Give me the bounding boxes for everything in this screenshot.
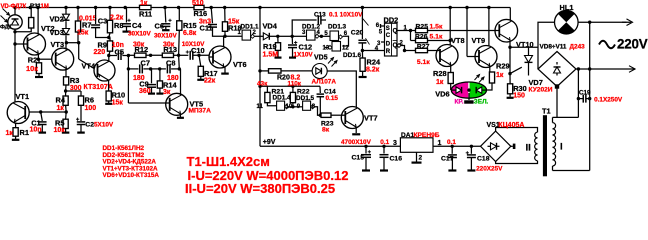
capacitor C20 [358,8,369,53]
svg-text:VT1: VT1 [16,92,30,101]
label C7 value [133,75,145,82]
resistor R19 [275,36,282,57]
svg-text:VT8: VT8 [451,36,465,45]
label R30 [513,84,527,93]
gate DD1.2 [307,30,320,40]
svg-text:100: 100 [85,105,97,112]
wire R13-C10 [174,54,189,57]
svg-text:+9V: +9V [263,139,276,146]
wire R20 tap [258,69,261,72]
svg-text:R10: R10 [112,91,126,100]
label DD1.6 pin13 [323,45,330,51]
transistor VT3 [52,43,74,70]
label VD6 [435,89,449,98]
label R17 value [204,78,216,85]
svg-text:R12: R12 [135,45,149,54]
wire to bridge left [510,46,538,48]
resistor R22 [290,86,295,102]
svg-text:МП37А: МП37А [189,107,212,114]
svg-text:C15: C15 [352,155,365,162]
svg-text:15к: 15к [112,99,124,106]
svg-text:C18: C18 [477,156,490,163]
label C15 value [341,139,372,146]
label R15 value [183,30,197,37]
label R6 value [85,105,97,112]
label R8 value [110,14,124,21]
label C9 [139,79,148,88]
svg-text:C: C [386,33,391,39]
label R22 value 110k [288,81,302,88]
label VD8 [540,44,567,51]
label DD1.4 [273,95,292,102]
label C20 [351,29,364,36]
transistor VT4 [94,60,115,81]
label C12 value [294,51,314,58]
label R12 [135,45,149,54]
label DD1.2 [302,24,321,31]
svg-text:C17: C17 [441,156,454,163]
transistor VT8 [436,45,458,67]
label R5 value [54,127,66,134]
VS1 right terminal [511,144,516,149]
label VD1 type [1,4,27,10]
label R8 [114,21,123,30]
svg-text:C9: C9 [139,79,148,88]
svg-text:C11: C11 [200,24,213,33]
label R10 value [112,99,124,106]
label R20 [277,74,290,81]
wire VD4 to DD1.2 [278,35,307,38]
label C1 value [30,127,42,134]
label VT9 [472,36,486,45]
label DD1.3 pin6 [344,31,348,37]
resistor R15 [177,8,182,56]
label R11 value [140,0,148,7]
svg-text:C4: C4 [132,21,142,30]
capacitor C11 [208,8,225,37]
label DD1.2 pin3 [302,30,306,36]
svg-text:D: D [386,42,391,48]
label R2 value [26,64,38,73]
svg-text:Q: Q [393,43,398,49]
svg-text:30Х10V: 30Х10V [154,32,177,39]
svg-text:6: 6 [376,23,380,29]
wire DC right vertical [588,22,591,170]
wire +9V vertical [259,8,261,147]
bridge rectifier VS1 [481,131,511,161]
svg-text:R26: R26 [415,34,428,41]
resistor R5 [62,112,70,133]
label VT8 [451,36,465,45]
wire VT6 collector [223,36,225,47]
resistor R20 [260,69,281,73]
label DA1 pin2 [419,155,423,162]
wire VT2 emitter node [37,54,53,61]
svg-text:22к: 22к [204,78,216,85]
label R14 [163,80,177,89]
resistor R21 [265,86,270,102]
label VT5 [190,99,204,108]
label VD1 [0,25,13,31]
label C6 [155,21,164,30]
wire R25 to VT10 base [428,30,499,32]
resistor R10 [106,91,111,101]
label VD6 green [474,99,489,106]
resistor R9 [107,38,112,58]
svg-text:360: 360 [139,88,151,95]
label R26 [415,34,428,41]
transistor VT7 [341,107,363,129]
svg-text:КЦ405А: КЦ405А [498,122,524,129]
svg-text:VD5: VD5 [314,55,328,62]
svg-text:5.1к: 5.1к [430,34,443,41]
label R13 value [163,42,175,49]
svg-text:R24: R24 [367,57,381,66]
capacitor C4 [122,8,131,32]
label T1 [542,107,551,116]
label R6 [85,95,94,104]
svg-text:0.15: 0.15 [326,95,339,102]
node R3 bottom [64,89,81,96]
capacitor C2 [76,105,85,132]
capacitor C17 [448,146,457,170]
label DD2 pin6 [376,23,380,29]
svg-text:1М: 1М [41,4,49,10]
label R31 [30,4,41,10]
wire VT1 base [30,110,68,113]
capacitor C10 [186,50,210,59]
junction dots on top rail [13,6,490,9]
junction node VD1 bottom [13,30,16,46]
svg-text:4700Х10V: 4700Х10V [341,139,372,146]
capacitor C16 [380,146,389,170]
svg-text:R19: R19 [263,42,277,51]
label R1 value [6,130,14,137]
svg-text:АЛ107А: АЛ107А [312,79,337,86]
label VT3 [51,40,65,49]
svg-text:150: 150 [513,93,525,100]
label VT4 [82,62,96,71]
wire DA1 output [433,145,481,148]
resistor R4 [63,96,68,112]
capacitor C18 [466,146,476,170]
label R21 [272,89,285,96]
label DA1 pin1 [438,140,442,147]
svg-text:5.1к: 5.1к [417,59,430,66]
svg-text:3: 3 [393,140,397,147]
svg-text:Т1-Ш1.4Х2см: Т1-Ш1.4Х2см [187,154,270,169]
label R4 value [57,105,65,112]
gate DD1.6 [328,42,341,52]
label DA1 pin3 [393,140,397,147]
svg-text:DD1.1: DD1.1 [241,24,260,31]
label DD1.1 pin2 [253,30,257,36]
label R18 value [228,18,240,25]
label DD1.3 [328,24,347,31]
label C3 [98,16,107,25]
gate DD1.1 [242,30,255,40]
svg-text:10n: 10n [30,127,42,134]
label R5 [55,118,64,127]
label R14 value [163,89,171,96]
svg-text:R27: R27 [417,43,430,50]
svg-text:3: 3 [302,30,306,36]
thyristor VD7 [510,47,533,75]
label DD2 pin4 [375,46,379,52]
label DD2 [384,15,399,24]
svg-text:VT4: VT4 [82,62,96,71]
svg-text:II: II [526,142,531,153]
label C10 [191,46,205,55]
resistor R2 [36,63,41,74]
svg-text:II-U=20V W=380ПЭВ0.25: II-U=20V W=380ПЭВ0.25 [185,181,335,196]
label C11 [200,24,213,33]
resistor R30 [507,74,514,98]
wire lower AC bypass [127,55,139,70]
wire VD5 to VT7 collector [327,71,356,107]
label C6 value [154,32,177,39]
transistor VT10 [495,19,518,42]
label C14 [324,88,336,95]
wire DD2 pin1 Q out [397,29,412,32]
wire VT6 emitter [221,67,229,74]
wire VT4 emitter [108,80,110,91]
svg-text:R6: R6 [85,95,94,104]
label R15 [183,21,197,30]
capacitor C8 [167,64,181,73]
svg-text:C16: C16 [390,155,403,162]
label VT6 [233,60,247,69]
label C13 [314,12,326,19]
wire VT10 emitter [508,41,511,76]
svg-text:10к: 10к [54,127,66,134]
label R28 value [436,79,444,86]
label C13/C20 values [329,12,363,19]
label R13 [163,45,177,54]
resistor R3 [64,69,69,91]
wire lamp feed [538,22,555,69]
label R25 value [430,23,443,30]
wire R20 to VD5 [281,70,312,72]
svg-text:R16: R16 [194,9,208,18]
transistor VT9 [467,46,497,68]
svg-text:8к: 8к [322,127,330,134]
svg-text:R11: R11 [139,9,152,18]
svg-text:0.1: 0.1 [380,139,389,146]
parts list red text [103,145,160,179]
svg-text:R5: R5 [55,118,64,127]
label C2 [85,121,94,128]
label C16 value [380,139,389,146]
svg-text:DA1: DA1 [401,132,415,139]
bridge rectifier VD8-V11 [538,52,576,87]
svg-text:Q: Q [393,29,398,35]
capacitor C3 [91,8,109,38]
label DD2 pin5 [379,30,383,36]
wire DD1.5 out [315,107,321,115]
wire VT10 collector [509,8,511,21]
svg-text:DD1.5: DD1.5 [296,95,315,102]
label VT2 [41,24,55,33]
AC terminal arrow top [622,19,633,26]
transistor VT6 [209,46,231,68]
svg-text:DD1.3: DD1.3 [328,24,347,31]
svg-text:1к: 1к [496,72,504,79]
LED VD6 body [451,82,486,98]
ground VD6 [464,100,473,103]
label R9 value [94,49,106,56]
wire VT5 emitter [177,114,184,118]
svg-text:S: S [386,26,390,32]
capacitor C1 [38,112,47,133]
svg-text:1.5М: 1.5М [263,51,279,58]
label R21 value 43k [257,81,268,88]
svg-text:ФД1: ФД1 [0,25,13,31]
svg-text:DD1.4: DD1.4 [273,95,292,102]
wire DD1.3 out [343,36,349,46]
svg-text:VD6÷VD10-КТ315А: VD6÷VD10-КТ315А [103,172,160,179]
label DD2 pin3 [377,41,381,47]
svg-text:VD6: VD6 [435,89,449,98]
resistor R16 [194,5,204,9]
svg-text:R28: R28 [433,69,447,78]
DD2 pin2 Qbar out [397,44,406,53]
photodiode VD1 [1,8,23,32]
capacitor C5 [109,51,130,60]
label R16 value [192,0,204,7]
DA1 pin2 ground [412,152,422,162]
lamp HL1 [555,10,579,34]
svg-text:30Х10V: 30Х10V [128,30,151,37]
resistor R27 [405,48,428,52]
label R20 value [291,74,301,81]
svg-text:220Х25V: 220Х25V [476,166,503,173]
transistor VT2 [15,33,46,55]
LED VD5 [312,64,327,79]
wire R27 to VT8 base [428,50,441,52]
svg-text:КРЕН9Б: КРЕН9Б [414,132,440,139]
wire R2 top [38,59,40,63]
label DD2 pin1 [404,26,408,32]
svg-text:КР.: КР. [455,99,464,106]
winding II [496,128,538,164]
resistor R29 [489,72,494,83]
label R27 value [417,59,430,66]
label R29 value [496,72,504,79]
wire VT1 emitter to R1 [15,123,17,128]
label R26 value [430,34,443,41]
label C2 value [94,121,114,128]
svg-text:0.1: 0.1 [447,139,456,146]
label C16 [390,155,403,162]
resistor R18 [222,8,227,38]
svg-text:5: 5 [379,30,383,36]
resistor R7 [75,8,80,43]
svg-text:R8: R8 [114,21,123,30]
svg-text:6.8к: 6.8к [183,30,197,37]
label R31 value 1M [41,4,49,10]
label transformer winding data [185,154,348,196]
svg-text:220: 220 [94,49,106,56]
label R4 [56,95,66,104]
svg-text:Д243: Д243 [570,44,586,51]
label C4 [132,21,142,30]
capacitor C19 [578,95,589,103]
label VD6 red [455,99,464,106]
svg-text:R1: R1 [20,128,29,137]
svg-text:R: R [386,49,391,55]
wire DD1.1 out [255,35,264,37]
resistor R1 [12,128,20,140]
wire VT5 collector [180,69,182,95]
DD2 letters [386,26,398,55]
svg-text:DD2: DD2 [384,15,399,24]
svg-text:C19: C19 [579,89,591,96]
label DD1.6 pin12 [342,45,349,51]
svg-text:C8: C8 [166,59,175,68]
label C10 value [182,41,205,48]
label VD7 type [529,86,553,93]
label VD8 type [570,44,586,51]
svg-text:R15: R15 [183,21,197,30]
label C7 [141,58,150,67]
label DD1.4 pin11 [257,104,264,110]
label R18 [228,24,242,33]
resistor R23 [321,113,331,117]
svg-text:VD8÷V11: VD8÷V11 [540,44,567,51]
svg-text:4: 4 [317,30,321,36]
gate DD1.4 [267,101,288,110]
wire DD1.1 input [225,35,242,37]
label VT10 [516,40,534,49]
IC DD2 box [385,23,398,56]
svg-text:2: 2 [253,30,257,36]
label R9 [98,41,107,50]
svg-text:C10: C10 [191,46,205,55]
svg-text:R13: R13 [163,45,177,54]
svg-text:R29: R29 [496,62,510,71]
label DD1.2 pin4 [317,30,321,36]
svg-text:15к: 15к [77,29,89,36]
svg-text:0.015: 0.015 [79,16,97,23]
label C19 value [594,97,623,104]
capacitor C7 [140,64,153,73]
label R23 [321,120,334,127]
label R19 value [263,51,279,58]
label DD1.1 [241,24,260,31]
label R7 value [77,29,89,36]
label R10 [112,91,126,100]
AC terminal arrow bottom [629,66,635,73]
svg-text:1к: 1к [140,0,148,7]
svg-text:10к: 10к [26,64,38,73]
label DD1.4 pin10 [286,104,293,110]
wire VT8 emitter [450,65,452,72]
wire R28 to LED [450,84,452,91]
label R2 [28,56,37,65]
label HL1 [560,3,574,12]
wire VT9 base feed [466,8,468,57]
label DD1.5 pin9 [297,104,301,110]
label VT7 [364,114,378,123]
resistor R26 [411,31,428,43]
wire VT9 collector [488,8,490,46]
label R3 [70,76,79,85]
svg-text:C3: C3 [98,16,107,25]
label C4 value [128,30,151,37]
winding I [553,117,590,170]
svg-text:DD1.6: DD1.6 [343,52,362,59]
